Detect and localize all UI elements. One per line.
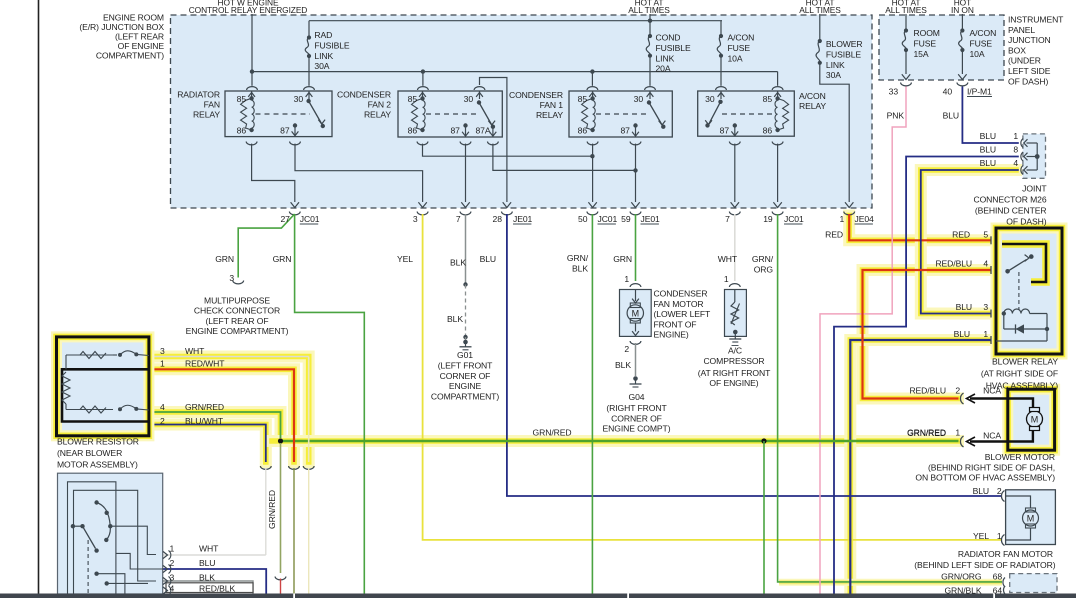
svg-text:ENGINE COMPARTMENT): ENGINE COMPARTMENT) <box>186 326 289 336</box>
svg-text:JE04: JE04 <box>855 214 875 224</box>
svg-text:10A: 10A <box>728 53 743 63</box>
svg-text:OF DASH): OF DASH) <box>1006 217 1046 227</box>
svg-text:LINK: LINK <box>656 53 675 63</box>
svg-text:BLU/WHT: BLU/WHT <box>185 416 224 426</box>
svg-text:WHT: WHT <box>185 346 205 356</box>
svg-text:OF DASH): OF DASH) <box>1008 76 1048 86</box>
svg-text:BLK: BLK <box>615 360 631 370</box>
svg-text:A/CON: A/CON <box>728 33 755 43</box>
svg-text:RED: RED <box>825 230 843 240</box>
svg-text:BLU: BLU <box>956 302 972 312</box>
svg-text:87: 87 <box>620 126 630 136</box>
svg-text:LINK: LINK <box>826 60 845 70</box>
svg-text:ENGINE: ENGINE <box>449 381 482 391</box>
svg-text:FUSIBLE: FUSIBLE <box>826 49 861 59</box>
svg-text:RELAY: RELAY <box>799 101 826 111</box>
svg-text:3: 3 <box>229 273 234 283</box>
svg-text:JC01: JC01 <box>784 214 804 224</box>
svg-text:BLK: BLK <box>447 314 463 324</box>
svg-text:M: M <box>1031 414 1038 424</box>
svg-text:30: 30 <box>634 94 644 104</box>
svg-text:BOX: BOX <box>1008 45 1026 55</box>
svg-text:(AT RIGHT FRONT: (AT RIGHT FRONT <box>698 368 771 378</box>
svg-text:COMPARTMENT): COMPARTMENT) <box>96 51 164 61</box>
svg-text:(LEFT REAR: (LEFT REAR <box>115 32 164 42</box>
svg-text:LEFT SIDE: LEFT SIDE <box>1008 66 1051 76</box>
svg-text:NCA: NCA <box>983 431 1001 441</box>
svg-text:GRN/RED: GRN/RED <box>907 428 946 438</box>
svg-text:3: 3 <box>983 302 988 312</box>
svg-text:RADIATOR: RADIATOR <box>177 90 220 100</box>
svg-text:BLU: BLU <box>954 329 970 339</box>
svg-text:ORG: ORG <box>754 264 774 274</box>
svg-text:RELAY: RELAY <box>536 110 563 120</box>
svg-text:86: 86 <box>578 126 588 136</box>
svg-text:I/P-M1: I/P-M1 <box>967 87 992 97</box>
svg-text:G01: G01 <box>457 350 473 360</box>
svg-text:3: 3 <box>170 573 175 583</box>
svg-text:(RIGHT FRONT: (RIGHT FRONT <box>606 403 667 413</box>
svg-text:1: 1 <box>624 274 629 284</box>
svg-text:CONTROL RELAY ENERGIZED: CONTROL RELAY ENERGIZED <box>189 5 308 15</box>
svg-text:M: M <box>632 308 639 318</box>
svg-text:JE01: JE01 <box>513 214 533 224</box>
svg-text:RAD: RAD <box>314 30 332 40</box>
svg-text:PANEL: PANEL <box>1008 25 1035 35</box>
svg-text:ALL TIMES: ALL TIMES <box>628 5 670 15</box>
svg-text:GRN: GRN <box>215 254 234 264</box>
svg-text:WHT: WHT <box>199 544 219 554</box>
svg-text:87: 87 <box>280 126 290 136</box>
svg-text:CORNER OF: CORNER OF <box>440 371 491 381</box>
svg-text:WHT: WHT <box>718 254 738 264</box>
svg-text:(NEAR BLOWER: (NEAR BLOWER <box>57 448 122 458</box>
svg-text:BLU: BLU <box>980 131 996 141</box>
svg-text:15A: 15A <box>914 49 929 59</box>
svg-text:40: 40 <box>943 87 953 97</box>
svg-text:BLOWER: BLOWER <box>826 39 863 49</box>
svg-text:BLOWER RELAY: BLOWER RELAY <box>992 357 1058 367</box>
svg-text:G04: G04 <box>629 392 645 402</box>
svg-text:INSTRUMENT: INSTRUMENT <box>1008 15 1064 25</box>
svg-text:GRN/ORG: GRN/ORG <box>941 572 982 582</box>
svg-text:BLOWER MOTOR: BLOWER MOTOR <box>985 452 1055 462</box>
svg-text:YEL: YEL <box>397 254 413 264</box>
svg-text:30: 30 <box>294 94 304 104</box>
svg-text:YEL: YEL <box>973 531 989 541</box>
svg-text:FUSE: FUSE <box>728 43 751 53</box>
svg-text:CONDENSER: CONDENSER <box>337 90 391 100</box>
svg-text:8: 8 <box>1013 145 1018 155</box>
svg-text:COMPRESSOR: COMPRESSOR <box>703 356 764 366</box>
svg-text:1: 1 <box>170 544 175 554</box>
svg-text:RELAY: RELAY <box>193 110 220 120</box>
svg-text:GRN/RED: GRN/RED <box>267 490 277 529</box>
svg-text:7: 7 <box>456 214 461 224</box>
svg-text:BLU: BLU <box>943 111 959 121</box>
svg-text:68: 68 <box>993 572 1003 582</box>
svg-text:19: 19 <box>763 214 773 224</box>
svg-text:7: 7 <box>725 214 730 224</box>
svg-text:2: 2 <box>160 416 165 426</box>
svg-text:RELAY: RELAY <box>364 110 391 120</box>
svg-text:20A: 20A <box>656 64 671 74</box>
svg-text:4: 4 <box>983 259 988 269</box>
svg-text:BLU: BLU <box>973 486 989 496</box>
svg-text:(LEFT REAR OF: (LEFT REAR OF <box>205 316 268 326</box>
svg-text:CONNECTOR M26: CONNECTOR M26 <box>973 195 1046 205</box>
svg-text:1: 1 <box>724 274 729 284</box>
svg-text:JC01: JC01 <box>598 214 618 224</box>
svg-text:4: 4 <box>1013 158 1018 168</box>
svg-text:(BEHIND RIGHT SIDE OF DASH,: (BEHIND RIGHT SIDE OF DASH, <box>928 462 1055 472</box>
svg-text:JOINT: JOINT <box>1022 184 1047 194</box>
svg-text:BLU: BLU <box>980 145 996 155</box>
svg-text:FAN MOTOR: FAN MOTOR <box>654 299 704 309</box>
svg-text:85: 85 <box>763 94 773 104</box>
svg-text:CONDENSER: CONDENSER <box>654 289 708 299</box>
svg-text:28: 28 <box>493 214 503 224</box>
svg-text:(LOWER LEFT: (LOWER LEFT <box>654 309 712 319</box>
svg-text:BLK: BLK <box>450 258 466 268</box>
svg-text:85: 85 <box>408 94 418 104</box>
svg-text:BLK: BLK <box>572 263 588 273</box>
svg-text:CONDENSER: CONDENSER <box>509 90 563 100</box>
svg-text:10A: 10A <box>970 49 985 59</box>
svg-text:33: 33 <box>889 87 899 97</box>
svg-text:FUSE: FUSE <box>970 38 993 48</box>
svg-text:27: 27 <box>280 214 290 224</box>
svg-text:87A: 87A <box>476 126 491 136</box>
svg-text:2: 2 <box>997 486 1002 496</box>
svg-text:85: 85 <box>237 94 247 104</box>
svg-text:1: 1 <box>955 428 960 438</box>
svg-text:FAN 2: FAN 2 <box>368 100 392 110</box>
svg-text:RED/BLU: RED/BLU <box>909 386 946 396</box>
svg-text:87: 87 <box>720 126 730 136</box>
svg-text:CHECK CONNECTOR: CHECK CONNECTOR <box>194 306 280 316</box>
svg-text:A/CON: A/CON <box>799 91 826 101</box>
svg-text:COMPARTMENT): COMPARTMENT) <box>431 391 499 401</box>
svg-text:FUSIBLE: FUSIBLE <box>656 43 691 53</box>
svg-text:30A: 30A <box>314 61 329 71</box>
svg-text:GRN/: GRN/ <box>567 253 589 263</box>
svg-text:CORNER OF: CORNER OF <box>611 413 662 423</box>
svg-text:3: 3 <box>413 214 418 224</box>
svg-text:86: 86 <box>763 126 773 136</box>
svg-text:(AT RIGHT SIDE OF: (AT RIGHT SIDE OF <box>981 369 1058 379</box>
svg-text:OF ENGINE: OF ENGINE <box>118 41 165 51</box>
svg-text:GRN/RED: GRN/RED <box>533 428 572 438</box>
svg-text:1: 1 <box>983 329 988 339</box>
svg-text:86: 86 <box>408 126 418 136</box>
svg-text:BLK: BLK <box>199 573 215 583</box>
svg-text:1: 1 <box>1013 131 1018 141</box>
svg-text:JUNCTION: JUNCTION <box>1008 35 1051 45</box>
svg-text:GRN/RED: GRN/RED <box>185 402 224 412</box>
svg-text:ENGINE): ENGINE) <box>654 330 689 340</box>
svg-text:BLU: BLU <box>980 158 996 168</box>
svg-text:M: M <box>1027 513 1034 523</box>
svg-text:FRONT OF: FRONT OF <box>654 319 697 329</box>
svg-text:GRN: GRN <box>613 254 632 264</box>
svg-text:COND: COND <box>656 33 681 43</box>
svg-text:2: 2 <box>955 386 960 396</box>
svg-text:(BEHIND LEFT SIDE OF RADIATOR): (BEHIND LEFT SIDE OF RADIATOR) <box>914 560 1055 570</box>
svg-text:FUSE: FUSE <box>914 38 937 48</box>
svg-text:JE01: JE01 <box>641 214 661 224</box>
svg-text:(BEHIND CENTER: (BEHIND CENTER <box>975 206 1047 216</box>
svg-text:HVAC ASSEMBLY): HVAC ASSEMBLY) <box>986 381 1059 391</box>
svg-text:(E/R) JUNCTION BOX: (E/R) JUNCTION BOX <box>79 22 164 32</box>
svg-text:A/C: A/C <box>728 346 742 356</box>
svg-text:RED/WHT: RED/WHT <box>185 359 225 369</box>
svg-text:BLU: BLU <box>480 254 496 264</box>
svg-text:59: 59 <box>621 214 631 224</box>
svg-text:BLOWER RESISTOR: BLOWER RESISTOR <box>57 437 139 447</box>
svg-text:RED: RED <box>952 230 970 240</box>
svg-text:IN ON: IN ON <box>951 5 974 15</box>
svg-text:LINK: LINK <box>314 51 333 61</box>
svg-text:BLU: BLU <box>199 558 215 568</box>
svg-text:1: 1 <box>997 531 1002 541</box>
svg-text:GRN/: GRN/ <box>752 254 774 264</box>
svg-text:MOTOR ASSEMBLY): MOTOR ASSEMBLY) <box>57 460 138 470</box>
svg-text:1: 1 <box>840 214 845 224</box>
svg-text:30: 30 <box>705 94 715 104</box>
svg-text:RED/BLK: RED/BLK <box>199 584 235 594</box>
svg-text:4: 4 <box>160 402 165 412</box>
svg-text:(LEFT FRONT: (LEFT FRONT <box>438 361 493 371</box>
svg-text:ON BOTTOM OF HVAC ASSEMBLY): ON BOTTOM OF HVAC ASSEMBLY) <box>915 473 1055 483</box>
svg-text:5: 5 <box>983 230 988 240</box>
svg-text:MULTIPURPOSE: MULTIPURPOSE <box>204 296 270 306</box>
svg-text:30A: 30A <box>826 70 841 80</box>
svg-text:2: 2 <box>624 344 629 354</box>
svg-text:50: 50 <box>578 214 588 224</box>
svg-text:2: 2 <box>170 558 175 568</box>
svg-text:3: 3 <box>160 346 165 356</box>
svg-text:GRN: GRN <box>273 254 292 264</box>
svg-text:86: 86 <box>237 126 247 136</box>
svg-text:ALL TIMES: ALL TIMES <box>799 5 841 15</box>
svg-text:4: 4 <box>170 584 175 594</box>
svg-text:FAN: FAN <box>204 100 220 110</box>
svg-text:(UNDER: (UNDER <box>1008 56 1041 66</box>
svg-text:FUSIBLE: FUSIBLE <box>314 40 349 50</box>
svg-text:87: 87 <box>450 126 460 136</box>
svg-text:PNK: PNK <box>887 111 905 121</box>
svg-text:ENGINE COMPT): ENGINE COMPT) <box>603 424 671 434</box>
svg-text:FAN 1: FAN 1 <box>540 100 564 110</box>
svg-text:ENGINE ROOM: ENGINE ROOM <box>103 13 164 23</box>
svg-text:ALL TIMES: ALL TIMES <box>885 5 927 15</box>
svg-text:1: 1 <box>160 359 165 369</box>
svg-text:A/CON: A/CON <box>970 28 997 38</box>
svg-text:OF ENGINE): OF ENGINE) <box>709 378 758 388</box>
svg-text:RADIATOR FAN MOTOR: RADIATOR FAN MOTOR <box>958 549 1053 559</box>
svg-text:RED/BLU: RED/BLU <box>935 259 972 269</box>
svg-text:85: 85 <box>578 94 588 104</box>
svg-text:ROOM: ROOM <box>914 28 940 38</box>
svg-text:30: 30 <box>464 94 474 104</box>
svg-text:JC01: JC01 <box>300 214 320 224</box>
